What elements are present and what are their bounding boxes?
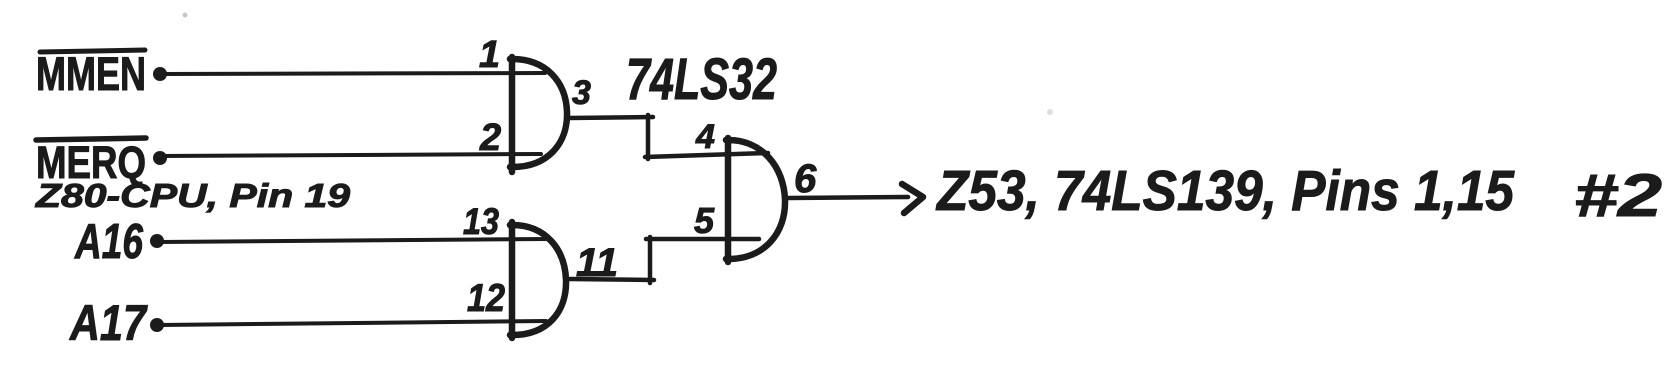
svg-text:A16: A16	[74, 215, 143, 269]
svg-text:11: 11	[576, 241, 618, 285]
svg-text:Z80-CPU, Pin 19: Z80-CPU, Pin 19	[35, 177, 351, 214]
svg-text:13: 13	[463, 201, 499, 242]
svg-text:4: 4	[695, 118, 715, 156]
svg-text:1: 1	[479, 34, 500, 76]
svg-text:3: 3	[572, 74, 591, 112]
svg-text:12: 12	[467, 277, 505, 320]
svg-text:MMEN: MMEN	[36, 47, 146, 100]
svg-text:2: 2	[479, 117, 501, 159]
svg-text:74LS32: 74LS32	[626, 47, 777, 112]
svg-text:Z53, 74LS139, Pins 1,15: Z53, 74LS139, Pins 1,15	[935, 159, 1515, 223]
svg-text:5: 5	[694, 200, 715, 241]
svg-text:6: 6	[794, 157, 817, 201]
svg-text:#2: #2	[1574, 162, 1662, 229]
svg-text:A17: A17	[68, 295, 147, 351]
